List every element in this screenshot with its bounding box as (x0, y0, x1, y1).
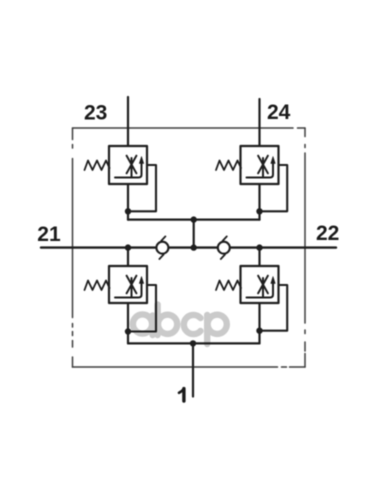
relief valve 24 closed-position cross (258, 156, 268, 178)
check valve right ball (218, 242, 230, 254)
port 24 line (258, 99, 260, 146)
wire: bottom-left valve input from line 21-22 (127, 248, 129, 266)
port 23 line (127, 97, 129, 146)
pilot line bottom-right valve (260, 285, 288, 331)
relief valve 23 body (109, 146, 147, 184)
relief valve 23 closed-position cross (127, 156, 137, 178)
check valve left seat ticks (159, 236, 165, 259)
wire: top-left valve output down to collector (127, 184, 129, 220)
junction top-right pilot/output (256, 208, 262, 214)
port 1 line (192, 343, 194, 396)
relief valve 23 spring (85, 161, 110, 171)
relief valve lower-left closed-position cross (127, 276, 137, 298)
svg-text:24: 24 (267, 101, 291, 124)
relief valve 24 body (241, 146, 279, 184)
relief valve 23 flow path arrow (115, 157, 144, 178)
relief valve lower-right flow path arrow (247, 277, 276, 298)
junction bottom-right input (256, 244, 262, 250)
wire: top collector bus (128, 219, 260, 221)
check valve left ball (156, 242, 168, 254)
pilot line top-right valve (260, 165, 288, 211)
junction bottom-left input (125, 244, 131, 250)
junction top collector center (191, 216, 197, 222)
relief valve lower-right body (241, 266, 279, 303)
wire: top-right valve output down to collector (258, 184, 260, 220)
junction bottom-right pilot/output (256, 328, 262, 334)
wire: bottom-right valve output to tank bus (258, 303, 260, 343)
junction top-left pilot/output (125, 208, 131, 214)
enclosure boundary (dash-dot) (73, 128, 306, 367)
relief valve lower-left spring (85, 281, 110, 291)
relief valve 24 spring (216, 161, 241, 171)
pilot line bottom-left valve (128, 285, 156, 332)
check valve right seat ticks (221, 236, 227, 259)
relief valve lower-left flow path arrow (115, 277, 144, 298)
svg-text:22: 22 (316, 222, 339, 245)
wire: center riser to line 21-22 (193, 220, 195, 248)
svg-text:21: 21 (37, 223, 61, 246)
junction bottom-left pilot/output (125, 328, 131, 334)
watermark abcp logo (133, 305, 227, 345)
pilot line top-left valve (128, 165, 156, 211)
line 21-22 main bus (41, 246, 336, 248)
wire: tank collector bus (128, 342, 260, 344)
junction riser on line 21-22 (191, 244, 197, 250)
junction tank bus center (190, 340, 196, 346)
relief valve lower-right spring (216, 281, 241, 291)
relief valve lower-left body (109, 266, 147, 303)
svg-text:23: 23 (84, 102, 107, 125)
port 1 label (179, 389, 184, 401)
wire: bottom-left valve output to tank bus (127, 303, 129, 343)
relief valve lower-right closed-position cross (258, 276, 268, 298)
wire: bottom-right valve input from line 21-22 (258, 248, 260, 266)
relief valve 24 flow path arrow (247, 157, 276, 178)
